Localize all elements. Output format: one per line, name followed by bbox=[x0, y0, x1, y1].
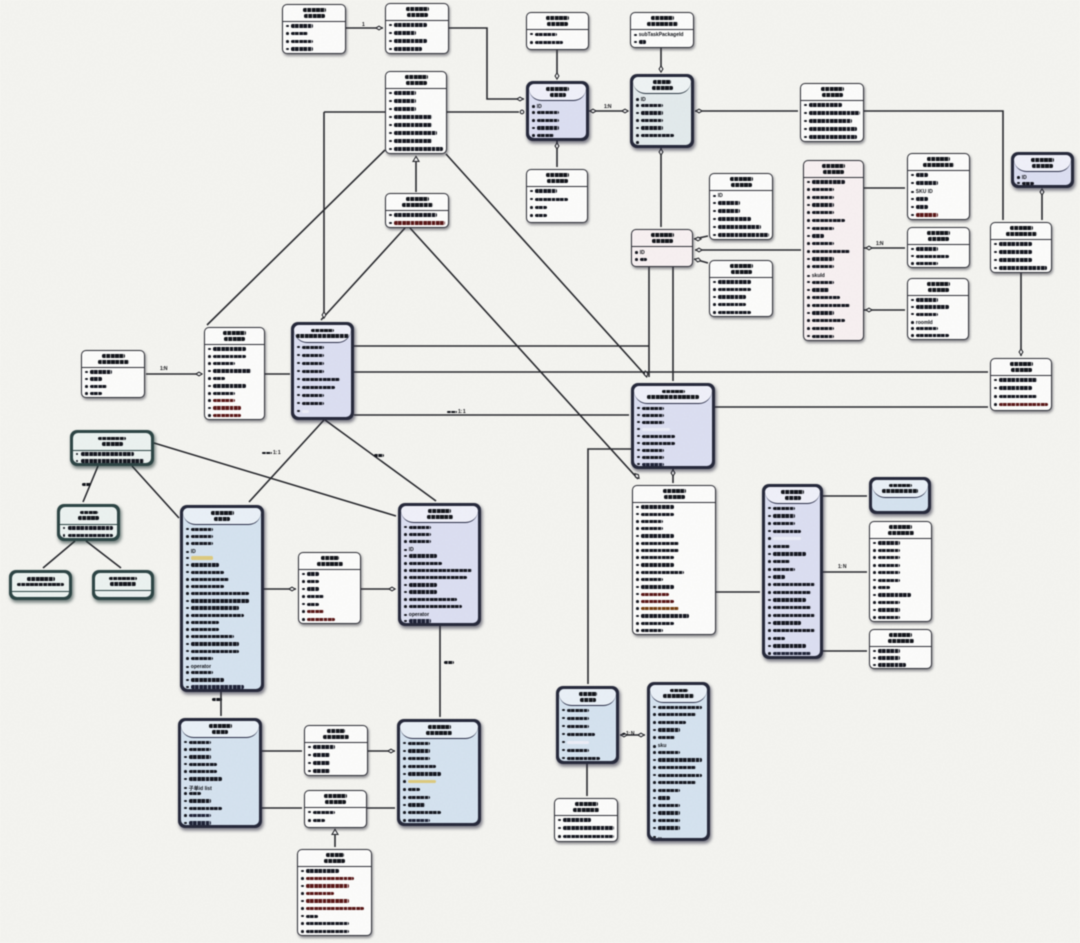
label 1 bbox=[362, 22, 364, 28]
wire 履约需求-履约单 diagonal bbox=[446, 154, 647, 377]
box 履约过程 bbox=[632, 485, 716, 635]
wire 合同-履约单 assoc bbox=[354, 414, 629, 416]
box 检测广场 bbox=[709, 260, 773, 317]
wire 履约单-履约过程 bbox=[672, 469, 674, 483]
box 质子单状态 bbox=[298, 552, 361, 624]
label 关联 bbox=[82, 483, 91, 486]
box 检测对象类型 bbox=[907, 153, 970, 220]
label 关联 bbox=[374, 454, 384, 457]
box 检测要求 bbox=[1011, 152, 1074, 188]
wire 预约单-预约单扩展 bbox=[586, 764, 588, 796]
wire 履约单-预约单 bbox=[588, 449, 631, 684]
wire 检测时间信息-合同 diagonal bbox=[321, 228, 405, 320]
box 附加需求 bbox=[526, 169, 588, 223]
box 检测单扩展 bbox=[869, 629, 932, 669]
box 分单策略 bbox=[57, 504, 120, 541]
wire 任务包-物品任务 bbox=[590, 110, 628, 112]
label 关联 bbox=[447, 409, 465, 415]
box 预约单扩展 bbox=[554, 798, 618, 842]
wire 检测时间信息-履约过程 diagonal bbox=[410, 228, 638, 479]
label 关联 bbox=[444, 661, 454, 664]
box 合同FulfilContract bbox=[291, 322, 354, 420]
box 任务包 bbox=[526, 81, 589, 141]
wire 检测对象-检测商品 bbox=[695, 249, 801, 251]
box 审核内容 bbox=[282, 4, 346, 54]
label 1: N bbox=[838, 564, 846, 570]
label 1:N bbox=[876, 241, 883, 247]
label 1:N bbox=[604, 104, 611, 110]
box 流转单 bbox=[178, 718, 262, 828]
box 检测时间信息 bbox=[385, 193, 449, 228]
wire 检测要求-检测要求内容 bbox=[1041, 189, 1043, 220]
box 合同过程 bbox=[204, 327, 265, 420]
box 物样兼容性服务 bbox=[9, 570, 72, 600]
wire 分单策略-服务1 bbox=[43, 541, 75, 568]
wire 任务包-附加需求 bbox=[556, 141, 558, 167]
box 履约需求 bbox=[385, 71, 447, 154]
box 质子单 bbox=[180, 505, 264, 692]
wire 检测商品-地址信息 bbox=[864, 247, 905, 249]
wire 合同-质子单 diagonal bbox=[249, 420, 324, 502]
wire 合同-质检内容 bbox=[354, 371, 988, 373]
wire 履约过程-检测单 bbox=[716, 591, 760, 593]
wire 预约单-外部实际订单 bbox=[620, 734, 645, 736]
box 拒单类型 bbox=[297, 849, 372, 936]
wire 质子单-质子单状态 bbox=[263, 588, 296, 590]
arrowheads circles bbox=[520, 110, 524, 114]
box 委托需求 bbox=[526, 12, 589, 50]
box 外部实际订单 bbox=[647, 682, 710, 841]
wire 审核内容-审核信息 bbox=[346, 27, 383, 29]
box 任务扩展字段 bbox=[630, 12, 694, 48]
wire 分单准备-物料质子单 bbox=[154, 443, 396, 516]
box 物料流转单 bbox=[397, 719, 481, 826]
wire 检测商品-主体信息 bbox=[864, 309, 905, 311]
label 关联 bbox=[262, 450, 280, 456]
arrowheads triangles bbox=[413, 156, 419, 161]
wire 检测要求内容-质检内容 bbox=[1020, 273, 1022, 356]
box 检测要求内容 bbox=[990, 222, 1052, 273]
box 物料质子单 bbox=[398, 503, 481, 626]
arrowheads diamonds bbox=[376, 26, 382, 30]
label 关联 bbox=[212, 698, 222, 701]
wire 检测时间信息-履约需求 bbox=[415, 157, 417, 192]
wire 流转单-图转单状态 bbox=[262, 750, 302, 752]
wire 检测单-检验单关系模型 bbox=[823, 495, 867, 497]
wire 检测单-检测单扩展 bbox=[823, 650, 867, 652]
box 检验单关系模型 bbox=[869, 477, 931, 514]
box 审核信息 bbox=[385, 3, 449, 54]
box 检测门店 bbox=[709, 173, 773, 240]
wire 履约需求-合同过程 diagonal bbox=[207, 150, 385, 325]
box 检测对象 bbox=[631, 229, 693, 267]
wire 检测对象-履约单 v1 bbox=[648, 267, 650, 377]
wire 图转单状态-物料流转单 bbox=[368, 750, 395, 752]
box 图转单状态 bbox=[304, 725, 368, 776]
box 合同要求 bbox=[800, 83, 864, 142]
box 分单准备 bbox=[70, 430, 154, 466]
wire 拒单类型-拒单原因 bbox=[334, 829, 336, 847]
box 拒单原因 bbox=[304, 790, 367, 828]
label 1:N bbox=[160, 366, 167, 372]
wire 合同-履约单 upper bbox=[354, 345, 649, 347]
wire 检测对象-检测门店 bbox=[694, 236, 708, 239]
wire 分单策略-服务2 bbox=[86, 541, 121, 568]
box 检测商品 bbox=[803, 160, 864, 341]
wire 审核信息-任务包 bbox=[449, 28, 524, 99]
wire 分单准备-分单策略 bbox=[83, 466, 98, 502]
wire 履约单-质检内容 bbox=[715, 406, 988, 408]
box 主体信息 bbox=[907, 278, 969, 340]
box 地址信息 bbox=[907, 227, 970, 268]
wire 委托需求-任务包 bbox=[556, 50, 558, 78]
label 关联 bbox=[622, 731, 634, 737]
box 固定任务状态 bbox=[81, 350, 145, 398]
box 履约单FulfilOrder bbox=[631, 383, 715, 469]
wire 履约需求-任务包 bbox=[324, 111, 519, 113]
wire 物品任务-合同要求 bbox=[695, 110, 798, 112]
wire 固定任务状态-合同过程 bbox=[146, 373, 202, 375]
wire 物品任务-检测对象 bbox=[660, 148, 662, 227]
wire 合同-物料质子单 diagonal bbox=[325, 420, 436, 501]
wire 任务包-合同 vertical bbox=[323, 112, 325, 318]
wire 检测对象-检测广场 bbox=[694, 259, 708, 263]
box 预约单 bbox=[556, 686, 619, 764]
wire 质子单状态-物料质子单 bbox=[361, 588, 395, 590]
box 检测单 bbox=[762, 484, 823, 659]
wire 检测对象-履约单 v2 bbox=[672, 267, 674, 381]
wire 检测商品-检测对象类型 bbox=[864, 187, 905, 189]
wire 流转单-拒单原因 bbox=[262, 807, 302, 809]
box 单任务靠台 bbox=[92, 570, 154, 600]
wire 物料质子单-物料流转单 bbox=[439, 626, 441, 717]
wire 分单准备-质子单 bbox=[132, 466, 179, 518]
wire 合同要求-检测要求内容 bbox=[864, 111, 1003, 220]
wire 拒单原因-物料流转单 bbox=[367, 807, 395, 809]
wire 合同过程-合同 bbox=[265, 373, 290, 375]
wire 质子单-流转单 bbox=[220, 692, 222, 716]
box 检测项列表 bbox=[869, 521, 932, 622]
box 质检内容 bbox=[990, 358, 1052, 411]
wire 任务扩展字段-物品任务 bbox=[660, 48, 662, 72]
wire 检测单-检测项列表 bbox=[823, 571, 867, 573]
box 物品任务 bbox=[630, 74, 694, 148]
